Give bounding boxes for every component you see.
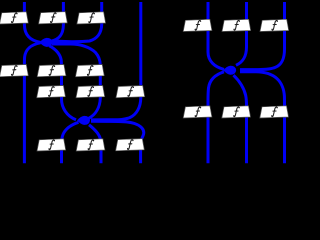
label f C1 (48, 87, 54, 97)
spider S1 (39, 38, 52, 47)
wire w3 top through box A3 into spider S1 upper horizontal (53, 2, 102, 42)
wire r-w3 top through box R1c into spider S3 upper horizontal (240, 2, 285, 70)
box f B1 (0, 65, 28, 77)
spider S2 (77, 116, 90, 125)
box f B2 (37, 65, 66, 77)
label f B2 (49, 66, 55, 76)
wire spider S1 out through box B1 long vertical down (24, 43, 40, 164)
label f R2a (195, 107, 201, 117)
label f R2c (271, 107, 277, 117)
label f A2 (50, 13, 56, 23)
box f C3 (116, 86, 145, 98)
box f R1a (183, 19, 212, 31)
wire r-w1 top through box R1a into spider S3 (208, 2, 224, 69)
box f E1 (37, 139, 66, 151)
label f C2 (88, 87, 94, 97)
wire spider S2 out through box E1 down (62, 122, 79, 163)
wire r-w2 top through box R1b into spider S3 (236, 2, 247, 65)
box f A1 (0, 12, 28, 24)
label f A1 (11, 13, 17, 23)
spider S3 (223, 66, 236, 75)
label f C3 (128, 87, 134, 97)
label f B3 (87, 66, 93, 76)
box f R2a (183, 106, 212, 118)
box f R1b (222, 19, 251, 31)
box f R2b (222, 106, 251, 118)
wire w4 top through box C3 into spider S2 upper horizontal (91, 2, 141, 120)
label f E1 (49, 140, 55, 150)
box f A3 (77, 12, 106, 24)
wire spider S1 lower horizontal through box B3 into box C2 into spider S2 (52, 44, 100, 118)
wire spider S3 out through box R2b down (234, 75, 247, 163)
label f R1b (234, 20, 240, 30)
box f B3 (76, 65, 105, 77)
box f R2c (260, 106, 289, 118)
box f A2 (39, 12, 68, 24)
box f R1c (260, 19, 289, 31)
box f E2 (76, 139, 105, 151)
wire spider S2 out through box E2 down (89, 125, 101, 164)
wire spider S1 out through box B2 into box C1 into spider S2 (50, 46, 77, 120)
label f E2 (88, 140, 94, 150)
label f B1 (11, 66, 17, 76)
label f R1c (272, 20, 278, 30)
wire w1 top through box A1 into spider S1 (24, 2, 40, 42)
label f R2b (233, 107, 239, 117)
wire spider S3 lower horizontal through box R2c down (240, 72, 285, 164)
box f C2 (76, 86, 105, 98)
wire w2 top through box A2 into spider S1 (51, 2, 64, 41)
label f A3 (88, 13, 94, 23)
box f E3 (116, 139, 145, 151)
label f E3 (127, 140, 133, 150)
wire spider S2 lower horizontal through box E3 down (91, 121, 144, 163)
wire spider S3 out through box R2a down (208, 72, 224, 164)
label f R1a (195, 20, 201, 30)
box f C1 (37, 86, 66, 98)
